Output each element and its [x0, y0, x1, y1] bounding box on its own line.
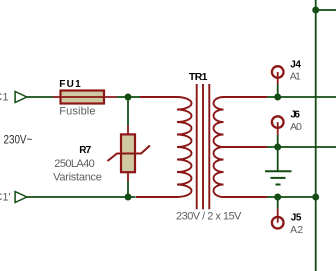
wire J6 to junction — [277, 135, 279, 147]
svg-text:250LA40: 250LA40 — [54, 158, 95, 170]
junction J4 — [274, 94, 281, 101]
wire bottom input to transformer — [27, 196, 136, 198]
svg-text:R7: R7 — [79, 145, 91, 156]
vertical bus — [315, 0, 317, 271]
svg-text:C1': C1' — [0, 191, 11, 203]
primary winding — [136, 97, 192, 197]
svg-text:TR1: TR1 — [189, 71, 208, 83]
junction after fuse — [125, 94, 132, 101]
transformer TR1 — [136, 84, 267, 209]
junction bus top — [312, 7, 319, 14]
secondary windings — [214, 97, 268, 197]
svg-text:FU1: FU1 — [59, 79, 81, 90]
wire junction down to ground — [277, 147, 279, 171]
junction varistor bottom — [125, 194, 132, 201]
fuse FU1 — [53, 91, 117, 104]
connector J6 — [272, 116, 284, 134]
svg-text:Varistance: Varistance — [53, 171, 102, 183]
junction J6 — [274, 144, 281, 151]
terminal C1 (top input) — [15, 92, 27, 103]
ground — [265, 171, 292, 184]
wire junction down to varistor — [127, 97, 129, 125]
wire J5 to junction — [277, 197, 279, 209]
connector J5 — [272, 209, 284, 229]
wire top input to fuse — [27, 96, 53, 98]
varistor R7 — [108, 125, 151, 181]
svg-text:A1: A1 — [290, 70, 301, 82]
svg-text:Fusible: Fusible — [59, 105, 95, 117]
terminal C1' (bottom input) — [15, 192, 27, 203]
connector J4 — [272, 66, 284, 84]
wire secondary top to right edge — [267, 96, 336, 98]
wire fuse to transformer — [117, 96, 141, 98]
junction bus bottom wire — [312, 194, 319, 201]
wire varistor to bottom wire — [127, 181, 129, 197]
svg-text:J6: J6 — [291, 110, 301, 121]
svg-text:A0: A0 — [290, 121, 302, 133]
svg-text:J4: J4 — [290, 60, 301, 71]
wire secondary bottom to bus — [267, 196, 316, 198]
junction J5 — [274, 194, 281, 201]
wire secondary center tap to right edge — [267, 146, 336, 148]
svg-text:230V~: 230V~ — [4, 134, 33, 147]
core — [196, 84, 198, 209]
wire J4 to junction — [277, 84, 279, 97]
svg-text:A2: A2 — [290, 224, 303, 236]
svg-text:230V / 2 x 15V: 230V / 2 x 15V — [176, 211, 242, 223]
svg-text:J5: J5 — [291, 212, 302, 223]
wire top right — [316, 9, 336, 11]
svg-text:C1: C1 — [0, 91, 8, 103]
